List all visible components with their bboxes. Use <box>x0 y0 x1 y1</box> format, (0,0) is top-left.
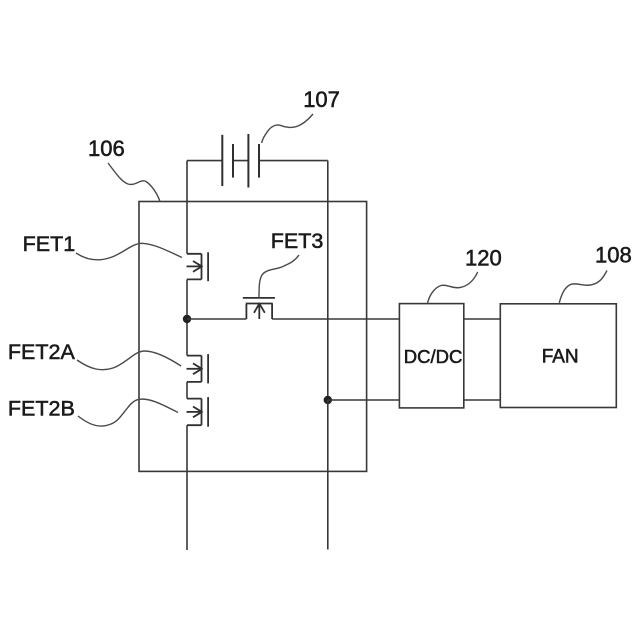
svg-text:107: 107 <box>303 87 340 112</box>
battery unit box 106 <box>139 202 367 472</box>
leader line for FET2A <box>77 351 181 370</box>
leader line for 108 <box>559 271 607 303</box>
transistor FET3 <box>243 298 275 319</box>
svg-text:DC/DC: DC/DC <box>404 346 463 367</box>
wire: DC/DC to FAN lower <box>464 399 501 401</box>
wire: left vertical from battery to FET1 <box>186 161 188 254</box>
svg-text:FAN: FAN <box>542 347 579 368</box>
leader line for 120 <box>428 272 478 303</box>
label 120 <box>465 245 502 270</box>
DC/DC converter 120 <box>399 304 463 408</box>
svg-text:FET3: FET3 <box>271 229 324 253</box>
leader line for 107 <box>262 114 313 143</box>
svg-text:FET1: FET1 <box>23 232 76 256</box>
svg-text:120: 120 <box>465 245 502 270</box>
label 108 <box>595 243 632 268</box>
fan 108 <box>500 304 616 408</box>
wire: node to FET3 <box>187 318 246 320</box>
leader line for FET1 <box>76 243 182 260</box>
label FET2A <box>8 340 76 364</box>
leader line for FET2B <box>78 399 178 426</box>
wire: FET3 to DC/DC <box>272 318 399 320</box>
leader line for FET3 <box>259 255 299 298</box>
svg-text:106: 106 <box>88 136 125 161</box>
label 107 <box>303 87 340 112</box>
node: junction of right vertical and bottom wire <box>324 396 332 404</box>
transistor FET2A <box>187 354 209 383</box>
transistor FET1 <box>187 252 209 281</box>
label FET3 <box>271 229 324 253</box>
transistor FET2B <box>187 397 209 427</box>
svg-text:FET2B: FET2B <box>8 396 75 420</box>
wire: FET2A to FET2B <box>186 382 188 399</box>
svg-text:FET2A: FET2A <box>8 340 76 364</box>
wire: DC/DC to FAN upper <box>464 318 501 320</box>
wire: tail below FET2B <box>186 425 188 550</box>
wire: FET1 to FET2A <box>186 279 188 355</box>
label 106 <box>88 136 125 161</box>
wire: right vertical from battery <box>327 161 329 400</box>
label FET1 <box>23 232 76 256</box>
leader line for 106 <box>108 163 160 202</box>
wire: bottom wire node to DC/DC <box>328 399 400 401</box>
node: junction of FET1/FET2A and FET3 branch <box>183 315 191 323</box>
svg-text:108: 108 <box>595 243 632 268</box>
battery 107 <box>222 134 259 188</box>
wire: top battery wire <box>187 160 328 162</box>
label FET2B <box>8 396 75 420</box>
wire: right vertical tail below node <box>327 400 329 550</box>
